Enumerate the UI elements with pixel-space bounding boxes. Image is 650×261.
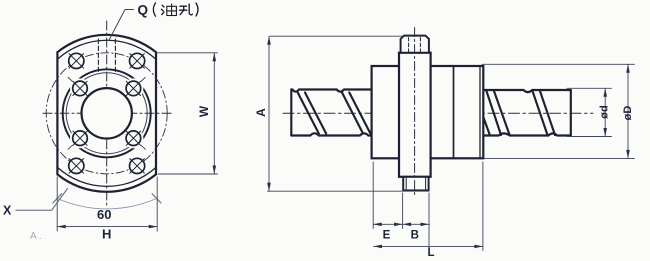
svg-text:L: L [427,247,434,259]
svg-text:B: B [411,229,419,241]
svg-text:X: X [3,204,12,218]
svg-text:A: A [254,108,268,117]
svg-text:øD: øD [622,106,634,121]
svg-text:E: E [383,229,391,241]
svg-text:H: H [102,227,111,242]
svg-text:ød: ød [599,105,611,118]
svg-text:60: 60 [97,207,111,222]
svg-text:Q: Q [138,3,149,18]
svg-text:A .: A . [30,231,42,242]
svg-text:W: W [197,105,211,117]
